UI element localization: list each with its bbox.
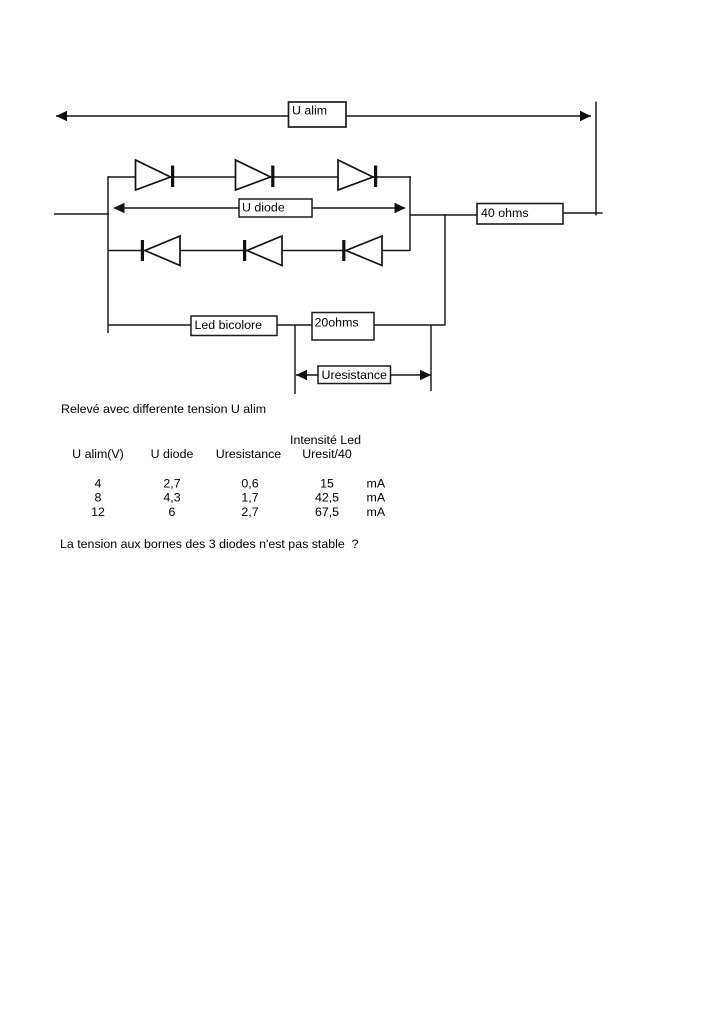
wire left vertical stub for Uresistance measurement <box>294 325 296 394</box>
svg-text:U alim: U alim <box>292 104 327 118</box>
arrowhead left of Uresistance arrow <box>296 370 307 380</box>
resistor R2 20ohms <box>312 313 374 341</box>
label Uresistance <box>318 366 391 384</box>
diode D4 bottom branch (reversed) <box>141 236 180 266</box>
arrowhead left of U alim arrow <box>56 111 67 121</box>
wire left vertical bus <box>107 176 109 333</box>
wire from 40 ohms to right vertical <box>563 212 603 214</box>
svg-text:mA: mA <box>367 491 386 505</box>
wire right vertical joining diode branches <box>409 176 411 251</box>
wire from diode pair to 40 ohms resistor <box>410 214 477 216</box>
svg-text:2,7: 2,7 <box>241 505 258 519</box>
svg-text:Uresit/40: Uresit/40 <box>302 447 352 461</box>
wire U diode measurement line <box>114 207 405 209</box>
wire U alim measurement line <box>56 115 591 117</box>
svg-text:1,7: 1,7 <box>241 491 258 505</box>
svg-text:0,6: 0,6 <box>241 476 258 490</box>
arrowhead left of U diode arrow <box>114 203 125 213</box>
diode D1 top branch <box>136 160 175 190</box>
LED bicolore component box <box>191 316 277 336</box>
svg-text:U diode: U diode <box>242 201 285 215</box>
arrowhead right of Uresistance arrow <box>420 370 431 380</box>
svg-text:La tension aux bornes des 3 di: La tension aux bornes des 3 diodes n'est… <box>60 537 359 551</box>
svg-text:Led bicolore: Led bicolore <box>195 318 263 332</box>
diode D2 top branch <box>236 160 275 190</box>
svg-text:mA: mA <box>367 505 386 519</box>
svg-text:8: 8 <box>95 491 102 505</box>
label U alim <box>289 102 347 127</box>
arrowhead right of U alim arrow <box>580 111 591 121</box>
svg-text:12: 12 <box>91 505 105 519</box>
svg-text:U diode: U diode <box>151 447 194 461</box>
wire Uresistance measurement line <box>296 374 431 376</box>
diode D3 top branch <box>338 160 377 190</box>
svg-text:42,5: 42,5 <box>315 491 339 505</box>
svg-text:U alim(V): U alim(V) <box>72 447 124 461</box>
label U diode <box>239 199 312 217</box>
svg-text:Uresistance: Uresistance <box>216 447 282 461</box>
svg-text:6: 6 <box>169 505 176 519</box>
svg-text:Intensité Led: Intensité Led <box>290 433 361 447</box>
wire LED branch <box>108 324 445 326</box>
resistor R1 40 ohms <box>477 204 563 225</box>
wire left supply lead <box>54 213 109 215</box>
wire right vertical from U alim arrow down to 40 ohms <box>595 102 597 216</box>
diode D5 bottom branch (reversed) <box>243 236 282 266</box>
arrowhead right of U diode arrow <box>395 203 406 213</box>
svg-text:2,7: 2,7 <box>163 476 180 490</box>
svg-text:20ohms: 20ohms <box>315 316 359 330</box>
svg-text:4: 4 <box>95 476 102 490</box>
svg-text:Relevé avec differente tension: Relevé avec differente tension U alim <box>61 402 266 416</box>
wire top diode branch <box>108 176 411 178</box>
svg-text:40 ohms: 40 ohms <box>481 206 529 220</box>
svg-text:4,3: 4,3 <box>163 491 180 505</box>
svg-text:67,5: 67,5 <box>315 505 339 519</box>
diode D6 bottom branch (reversed) <box>342 236 382 266</box>
svg-text:15: 15 <box>320 476 334 490</box>
wire bottom diode branch <box>108 250 410 252</box>
svg-text:Uresistance: Uresistance <box>322 368 388 382</box>
wire right vertical stub for Uresistance measurement <box>430 325 432 391</box>
svg-text:mA: mA <box>367 476 386 490</box>
wire middle vertical to LED branch <box>444 214 446 325</box>
